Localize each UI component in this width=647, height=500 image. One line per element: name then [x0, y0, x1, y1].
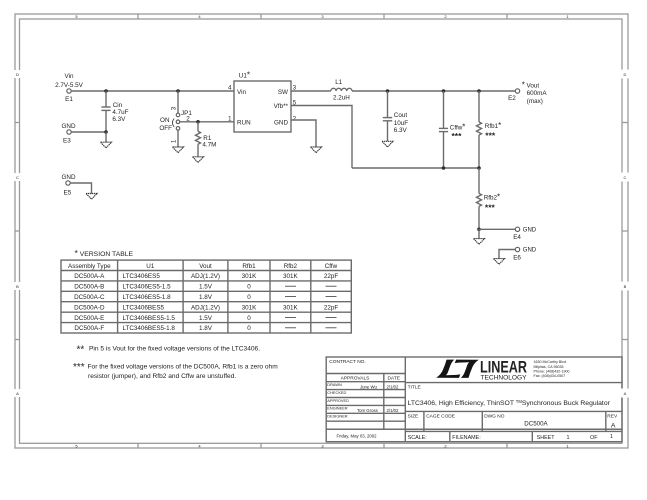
svg-text:resistor (jumper), and Rfb2 an: resistor (jumper), and Rfb2 and Cffw are…	[88, 373, 236, 380]
svg-text:301K: 301K	[242, 304, 258, 311]
svg-text:Phone: (408)432-1900: Phone: (408)432-1900	[534, 369, 570, 373]
svg-text:FILENAME:: FILENAME:	[452, 435, 480, 441]
svg-text:Rfb2: Rfb2	[284, 263, 298, 270]
svg-text:LTC3406ES5-1.5: LTC3406ES5-1.5	[123, 284, 172, 291]
junction Cin-gnd	[104, 130, 108, 134]
title block approvals text	[329, 359, 400, 382]
svg-text:For the fixed voltage versions: For the fixed voltage versions of the DC…	[88, 363, 279, 370]
ground E6	[494, 259, 505, 265]
svg-text:Fax: (408)434-0507: Fax: (408)434-0507	[534, 374, 566, 378]
svg-text:1.5V: 1.5V	[199, 284, 213, 291]
svg-text:A: A	[624, 391, 627, 396]
svg-text:6.3V: 6.3V	[112, 116, 126, 123]
svg-text:E3: E3	[63, 138, 71, 145]
svg-text:OFF: OFF	[159, 125, 172, 132]
junction Cout	[386, 89, 390, 93]
ground E5	[86, 194, 97, 200]
terminal E2	[508, 80, 547, 105]
svg-text:1.8V: 1.8V	[199, 294, 213, 301]
svg-text:LTC3406BES5-1.5: LTC3406BES5-1.5	[123, 315, 176, 322]
wire L1 to Vout	[352, 90, 515, 92]
svg-text:A: A	[611, 422, 616, 429]
svg-text:0: 0	[247, 325, 251, 332]
svg-text:B: B	[624, 284, 627, 289]
svg-text:Cout: Cout	[394, 112, 408, 119]
svg-text:LTC3406ES5-1.8: LTC3406ES5-1.8	[123, 294, 172, 301]
wire E3 to Cin	[71, 131, 106, 133]
svg-text:22pF: 22pF	[324, 273, 339, 280]
svg-text:D: D	[624, 72, 627, 77]
junction JP1-Vin	[176, 89, 180, 93]
svg-text:Cffw: Cffw	[325, 263, 338, 270]
svg-text:ADJ(1.2V): ADJ(1.2V)	[191, 304, 220, 311]
svg-text:U1*: U1*	[239, 71, 250, 80]
svg-text:(max): (max)	[527, 98, 543, 105]
svg-text:***: ***	[485, 130, 496, 140]
svg-text:2/1/02: 2/1/02	[387, 384, 400, 389]
svg-text:E4: E4	[513, 234, 521, 241]
svg-text:0: 0	[247, 294, 251, 301]
svg-text:4.7uF: 4.7uF	[112, 109, 128, 116]
svg-text:DC500A-D: DC500A-D	[74, 304, 105, 311]
svg-text:Assembly Type: Assembly Type	[68, 263, 111, 270]
svg-text:LTC3406BES5: LTC3406BES5	[123, 304, 165, 311]
svg-text:ON: ON	[160, 117, 170, 124]
svg-text:GND: GND	[523, 227, 537, 233]
note 2	[77, 345, 261, 356]
LT logo mark	[436, 360, 479, 378]
svg-text:***: ***	[73, 362, 85, 373]
svg-text:B: B	[16, 284, 19, 289]
svg-text:REV: REV	[607, 413, 618, 419]
svg-text:(: (	[172, 117, 175, 127]
wire Vfb	[291, 106, 352, 169]
table dashes	[285, 286, 337, 328]
version table text	[68, 263, 338, 332]
svg-text:ENGINEER: ENGINEER	[327, 406, 348, 411]
svg-text:A: A	[16, 391, 19, 396]
jumper JP1	[159, 91, 192, 147]
inductor L1	[331, 79, 352, 101]
resistor R1	[196, 122, 217, 157]
IC U1	[234, 71, 291, 132]
svg-text:LTC3406, High Efficiency, Thin: LTC3406, High Efficiency, ThinSOT TMSync…	[408, 399, 611, 407]
wire to E4	[479, 228, 515, 230]
svg-text:6.3V: 6.3V	[394, 127, 408, 134]
svg-text:Friday, May 03, 2002: Friday, May 03, 2002	[337, 433, 378, 438]
LT logo address	[534, 360, 570, 378]
svg-text:2.2uH: 2.2uH	[333, 94, 350, 101]
svg-text:U1: U1	[146, 263, 155, 270]
svg-text:SIZE: SIZE	[408, 413, 419, 419]
svg-text:* Vout: * Vout	[522, 80, 540, 89]
title block grid	[326, 357, 622, 442]
svg-text:DC500A-F: DC500A-F	[74, 325, 104, 332]
svg-text:0: 0	[247, 315, 251, 322]
ground JP1	[173, 147, 184, 153]
svg-text:Vfb**: Vfb**	[274, 103, 289, 110]
svg-text:CONTRACT NO.: CONTRACT NO.	[329, 359, 365, 365]
wire JP1 to RUN	[180, 121, 234, 123]
junction Rfb1 bottom	[477, 166, 481, 170]
wire E5 to ground	[70, 183, 91, 194]
svg-text:TECHNOLOGY: TECHNOLOGY	[481, 374, 527, 381]
svg-text:Rfb1: Rfb1	[242, 263, 256, 270]
svg-text:DC500A-B: DC500A-B	[74, 284, 104, 291]
svg-text:Milpitas, CA 95035: Milpitas, CA 95035	[534, 365, 564, 369]
junction Cin-Vin	[104, 89, 108, 93]
junction R1-RUN	[196, 120, 200, 124]
note 3	[73, 362, 278, 380]
svg-text:DATE: DATE	[387, 376, 399, 382]
terminal E3	[62, 123, 76, 145]
size cage dwg row	[408, 413, 618, 419]
svg-text:GND: GND	[62, 174, 76, 181]
svg-text:C: C	[624, 175, 627, 180]
capacitor Cout	[383, 91, 409, 141]
svg-text:E2: E2	[508, 95, 516, 102]
svg-text:E5: E5	[64, 189, 72, 196]
ground Cout	[382, 141, 393, 147]
junction Rfb1 top	[477, 89, 481, 93]
svg-text:Vout: Vout	[199, 263, 212, 270]
svg-text:301K: 301K	[242, 273, 258, 280]
version table grid	[61, 260, 351, 333]
svg-text:GND: GND	[62, 123, 76, 130]
svg-text:RUN: RUN	[237, 119, 251, 126]
svg-text:1.5V: 1.5V	[199, 315, 213, 322]
ground Rfb2	[474, 229, 485, 244]
svg-text:Tom Gross: Tom Gross	[357, 408, 378, 413]
svg-text:1630 McCarthy Blvd.: 1630 McCarthy Blvd.	[534, 360, 567, 364]
svg-text:DWG NO: DWG NO	[484, 413, 505, 419]
svg-text:GND: GND	[274, 119, 288, 126]
svg-text:DRAWN: DRAWN	[327, 382, 342, 387]
svg-text:301K: 301K	[283, 304, 299, 311]
svg-text:DC500A-C: DC500A-C	[74, 294, 105, 301]
svg-text:1.8V: 1.8V	[199, 325, 213, 332]
wire Vin rail	[71, 90, 234, 92]
junction Cffw bottom	[442, 166, 446, 170]
svg-text:**: **	[77, 345, 85, 356]
svg-text:DC500A: DC500A	[524, 420, 548, 427]
svg-text:DC500A-E: DC500A-E	[74, 315, 104, 322]
svg-text:SCALE:: SCALE:	[408, 435, 427, 441]
svg-text:TITLE: TITLE	[408, 385, 421, 391]
svg-text:***: ***	[452, 131, 463, 141]
svg-text:June Wu: June Wu	[360, 384, 377, 389]
svg-text:L1: L1	[335, 79, 343, 86]
ground below Cin	[101, 132, 112, 148]
svg-text:E6: E6	[513, 254, 521, 261]
svg-text:Pin 5 is Vout for the fixed vo: Pin 5 is Vout for the fixed voltage vers…	[89, 346, 260, 353]
svg-text:CHECKED: CHECKED	[327, 390, 346, 395]
terminal E4	[513, 227, 537, 241]
svg-text:APPROVALS: APPROVALS	[341, 376, 370, 382]
svg-text:E1: E1	[65, 96, 73, 103]
svg-text:301K: 301K	[283, 273, 299, 280]
svg-text:Cin: Cin	[113, 102, 123, 109]
svg-text:600mA: 600mA	[527, 90, 548, 97]
svg-text:SHEET: SHEET	[537, 435, 556, 441]
svg-text:***: ***	[485, 202, 496, 212]
terminal E6	[513, 247, 537, 261]
resistor Rfb2	[477, 168, 501, 229]
svg-text:LTC3406BES5-1.8: LTC3406BES5-1.8	[123, 325, 176, 332]
svg-text:1: 1	[567, 435, 570, 441]
scale row	[408, 434, 613, 441]
wire SW to L1	[291, 90, 331, 92]
svg-text:DC500A-A: DC500A-A	[74, 273, 105, 280]
svg-text:4.7M: 4.7M	[202, 141, 216, 148]
resistor Rfb1	[477, 91, 502, 168]
svg-text:Rfb2*: Rfb2*	[484, 192, 500, 201]
svg-text:ADJ(1.2V): ADJ(1.2V)	[191, 273, 220, 280]
wire U1 GND pin	[291, 120, 316, 147]
terminal E5	[62, 174, 76, 197]
svg-text:2/1/02: 2/1/02	[387, 408, 400, 413]
ground U1	[311, 147, 322, 153]
svg-text:C: C	[16, 175, 19, 180]
svg-text:Vin: Vin	[65, 73, 74, 80]
terminal E1	[65, 89, 73, 103]
svg-text:0: 0	[247, 284, 251, 291]
svg-text:APPROVED: APPROVED	[327, 398, 349, 403]
junction Cffw top	[442, 89, 446, 93]
svg-text:D: D	[16, 72, 19, 77]
svg-text:1: 1	[610, 434, 613, 440]
node Vin label	[55, 73, 83, 89]
wire feedback	[352, 167, 479, 169]
svg-text:LTC3406ES5: LTC3406ES5	[123, 273, 161, 280]
svg-text:2.7V-5.5V: 2.7V-5.5V	[55, 82, 83, 89]
svg-text:GND: GND	[523, 248, 537, 254]
svg-text:22pF: 22pF	[324, 304, 339, 311]
wire E6 to ground	[499, 250, 515, 259]
right zone letters	[621, 70, 629, 398]
capacitor Cin	[101, 91, 128, 132]
junction Rfb2 bottom	[477, 228, 481, 232]
svg-text:OF: OF	[590, 435, 598, 441]
svg-text:SW: SW	[278, 89, 288, 96]
svg-text:CAGE CODE: CAGE CODE	[426, 413, 455, 419]
ground R1	[193, 157, 204, 163]
svg-text:Vin: Vin	[237, 89, 246, 96]
svg-text:DESIGNER: DESIGNER	[327, 414, 348, 419]
svg-text:Rfb1*: Rfb1*	[485, 121, 501, 130]
capacitor Cffw	[439, 91, 466, 168]
